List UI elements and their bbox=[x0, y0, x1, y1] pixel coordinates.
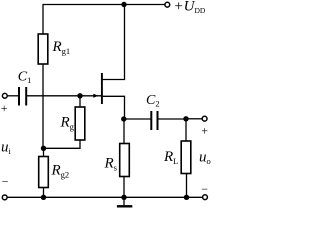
svg-text:−: − bbox=[201, 182, 208, 196]
terminal input plus bbox=[2, 93, 7, 98]
node source junction bbox=[121, 116, 126, 121]
wire Rs top lead bbox=[123, 119, 125, 144]
wire Rg1 bottom to node M (crosses gate wire, no connection) bbox=[42, 64, 44, 148]
svg-text:+: + bbox=[1, 101, 8, 115]
wire bottom rail bbox=[7, 196, 202, 198]
wire drain to top rail bbox=[103, 5, 125, 80]
wire Rg2 bottom lead bbox=[43, 188, 45, 198]
node RL bottom junction bbox=[184, 195, 189, 200]
node M (Rg1/Rg2/Rg junction) bbox=[41, 146, 46, 151]
terminal input minus bbox=[2, 195, 7, 200]
wire top supply rail bbox=[43, 4, 165, 6]
resistor Rg bbox=[75, 107, 85, 140]
node gate / Rg junction bbox=[77, 93, 82, 98]
wire source (bar to source node) bbox=[103, 96, 125, 119]
wire Rs bottom lead bbox=[123, 177, 125, 198]
node output junction bbox=[183, 116, 188, 121]
resistor Rg1 bbox=[38, 34, 48, 64]
svg-text:+: + bbox=[201, 124, 208, 138]
svg-text:−: − bbox=[2, 174, 9, 188]
node Rs / ground junction bbox=[121, 195, 126, 200]
terminal output plus bbox=[202, 116, 207, 121]
wire Rg bottom to node M bbox=[44, 140, 81, 148]
node drain-rail junction bbox=[121, 2, 126, 7]
node Rg2 bottom junction bbox=[41, 195, 46, 200]
transistor Q1 (N-JFET): channel bar and gate arrow bbox=[93, 73, 102, 104]
resistor RL bbox=[181, 141, 191, 174]
resistor Rs bbox=[120, 144, 130, 177]
wire source node to C2 bbox=[124, 118, 151, 120]
wire input terminal to C1 bbox=[7, 95, 18, 97]
wire C2 to output node bbox=[158, 118, 187, 120]
capacitor C2 bbox=[150, 111, 152, 130]
resistor Rg2 bbox=[39, 157, 49, 188]
terminal +UDD bbox=[165, 2, 170, 7]
wire RL top lead bbox=[185, 119, 187, 141]
wire Rg top lead bbox=[79, 96, 81, 107]
wire gate (C1 to transistor gate) bbox=[26, 95, 102, 97]
wire output node to terminal bbox=[186, 118, 202, 120]
ground bbox=[117, 197, 132, 206]
terminal output minus bbox=[203, 195, 208, 200]
wire Rg1 top lead bbox=[42, 4, 44, 34]
wire RL bottom lead bbox=[186, 174, 188, 198]
capacitor C1 bbox=[18, 87, 20, 106]
wire node M to Rg2 bbox=[43, 148, 45, 156]
